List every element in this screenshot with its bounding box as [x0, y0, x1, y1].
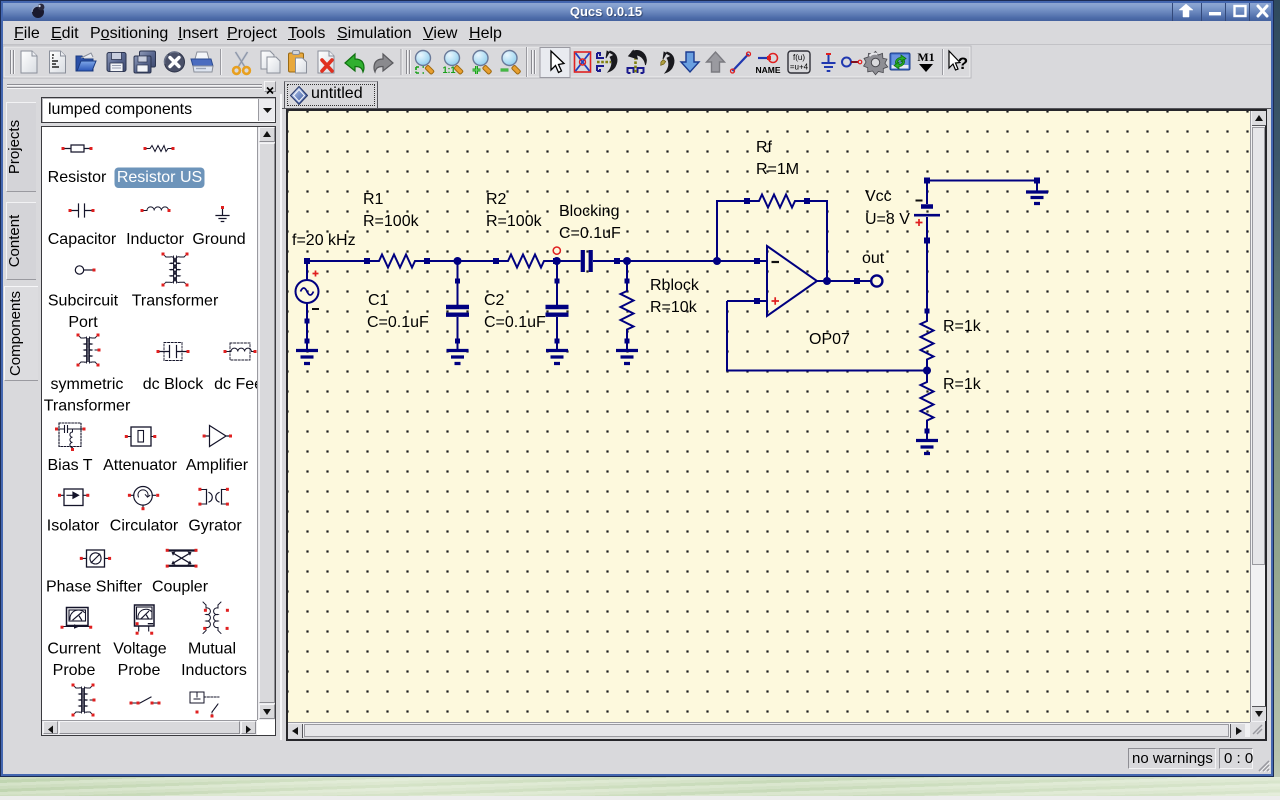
dock titlebar grooves [7, 84, 262, 86]
symmetric transformer icon [81, 338, 88, 362]
capacitor C2 [546, 261, 569, 344]
svg-text:Rf: Rf [756, 139, 773, 156]
vertical tab: Projects [6, 102, 36, 192]
coupler icon [169, 551, 195, 566]
svg-text:Resistor: Resistor [48, 169, 107, 186]
svg-text:Probe: Probe [118, 662, 161, 679]
wire R1 to node A [427, 260, 496, 262]
svg-text:Mutual: Mutual [188, 641, 236, 658]
svg-text:1:1: 1:1 [442, 65, 455, 75]
untitled tab [284, 81, 378, 108]
canvas zone [282, 80, 1271, 742]
pop out (disabled) [707, 52, 725, 72]
cut [233, 52, 250, 74]
amplifier icon [205, 426, 231, 447]
go into [681, 52, 699, 72]
svg-text:Inductors: Inductors [181, 662, 247, 679]
node junction at feedback tap [713, 257, 721, 265]
menu bar [1, 21, 1273, 45]
svg-text:=u+4: =u+4 [790, 63, 809, 72]
wire feedback loop [717, 201, 827, 281]
print [191, 52, 213, 72]
subcircuit port icon [75, 266, 83, 274]
row9: relay icon [190, 692, 204, 703]
insert label [755, 54, 780, 76]
equation [788, 51, 810, 73]
dc feed icon [225, 348, 255, 351]
inductor icon [142, 207, 169, 211]
svg-text:dc Feed: dc Feed [214, 376, 257, 393]
svg-text:Inductor: Inductor [126, 231, 184, 248]
vertical tab: Content [6, 202, 36, 280]
svg-text:Capacitor: Capacitor [48, 231, 117, 248]
beige schematic viewport [288, 111, 1250, 722]
ground for V1 [296, 339, 318, 364]
ground at divider bottom [916, 431, 938, 454]
desktop wallpaper right sliver [1274, 0, 1280, 800]
wire V1 to R1 [307, 260, 367, 262]
window buttons [1172, 1, 1201, 21]
new text [50, 51, 66, 73]
svg-text:Transformer: Transformer [132, 293, 219, 310]
node junction at C2 with red marker [553, 257, 561, 265]
delete [318, 51, 334, 73]
port out [871, 275, 882, 286]
red terminal dots [55, 147, 257, 718]
svg-text:Probe: Probe [53, 662, 96, 679]
open [76, 53, 96, 71]
svg-text:Blocking: Blocking [559, 203, 619, 220]
ground icon [216, 209, 229, 222]
paste [289, 51, 307, 74]
svg-text:C=0.1uF: C=0.1uF [484, 314, 546, 331]
circulator icon [134, 487, 153, 506]
deactivate [575, 52, 591, 72]
svg-text:C=0.1uF: C=0.1uF [559, 225, 621, 242]
resistor R2 [493, 255, 559, 268]
svg-text:Phase Shifter: Phase Shifter [46, 579, 143, 596]
resistor R1 [364, 255, 430, 268]
svg-text:R=10k: R=10k [650, 299, 698, 316]
wire op-amp plus input to divider tap [727, 301, 927, 371]
simulate gear [864, 51, 888, 74]
svg-text:?: ? [958, 54, 968, 73]
desktop wallpaper bottom strip [0, 777, 1280, 796]
phase shifter icon [87, 550, 105, 567]
ground for C2 [556, 341, 558, 349]
svg-text:Transformer: Transformer [44, 398, 131, 415]
svg-text:Attenuator: Attenuator [103, 457, 178, 474]
svg-text:f(u): f(u) [793, 53, 805, 62]
svg-text:R=1k: R=1k [943, 318, 982, 335]
battery Vcc [914, 178, 940, 312]
ground for C1 [457, 341, 459, 349]
current probe icon [67, 608, 89, 626]
dock close button [264, 81, 276, 92]
insert wire [731, 52, 751, 73]
app icon [29, 2, 47, 20]
svg-text:Gyrator: Gyrator [188, 518, 242, 535]
row9: switch icon [131, 697, 159, 703]
svg-text:Vcc: Vcc [865, 188, 892, 205]
save [107, 53, 126, 72]
labels [44, 169, 272, 679]
resistor US icon [145, 146, 173, 152]
svg-text:symmetric: symmetric [51, 376, 124, 393]
new [21, 51, 37, 73]
wire op-amp output to port [817, 280, 871, 282]
svg-text:Rblock: Rblock [650, 277, 700, 294]
voltage probe icon [135, 605, 155, 626]
vertical tab: Components (selected) [4, 286, 38, 381]
pointer (pressed) [540, 48, 570, 78]
horizontal scrollbar [288, 722, 1250, 737]
resistor EU icon [63, 145, 91, 152]
svg-text:dc Block: dc Block [143, 376, 204, 393]
isolator icon [64, 489, 83, 506]
capacitor icon [70, 204, 93, 217]
zoom out [501, 51, 521, 75]
sep + handle [400, 49, 402, 75]
svg-text:Amplifier: Amplifier [186, 457, 249, 474]
svg-text:U=8 V: U=8 V [865, 211, 910, 228]
svg-text:R=100k: R=100k [486, 213, 543, 230]
show data display [890, 53, 910, 70]
svg-text:Bias T: Bias T [47, 457, 92, 474]
svg-text:Subcircuit: Subcircuit [48, 293, 119, 310]
svg-text:R1: R1 [363, 191, 384, 208]
zoom in [473, 51, 492, 75]
resistor Rf [744, 195, 810, 208]
svg-text:Circulator: Circulator [110, 518, 179, 535]
zoom 1:1 [442, 51, 463, 76]
svg-text:C1: C1 [368, 292, 389, 309]
svg-text:R=100k: R=100k [363, 213, 420, 230]
svg-text:OP07: OP07 [809, 331, 850, 348]
svg-text:Coupler: Coupler [152, 579, 209, 596]
zoom fit [416, 51, 435, 75]
ground at Vcc top [1026, 178, 1048, 204]
svg-text:Current: Current [47, 641, 101, 658]
resistor R4 R=1k bottom [921, 371, 934, 434]
bias T icon [59, 423, 81, 447]
svg-text:C2: C2 [484, 292, 505, 309]
svg-text:NAME: NAME [755, 65, 780, 75]
svg-text:Ground: Ground [192, 231, 245, 248]
combo box [41, 97, 276, 123]
toolbar frame lines [3, 46, 971, 78]
marker [917, 50, 934, 72]
component list [41, 126, 276, 736]
copy [261, 51, 280, 73]
svg-text:out: out [862, 250, 885, 267]
wire blocking cap to op-amp minus input [617, 260, 757, 262]
capacitor Blocking [557, 250, 620, 272]
gyrator icon [202, 490, 227, 505]
close [161, 48, 188, 75]
mutual inductors icon [206, 605, 210, 631]
ground tool [822, 54, 836, 71]
svg-text:C=0.1uF: C=0.1uF [367, 314, 429, 331]
mirror [597, 51, 617, 72]
svg-text:Voltage: Voltage [113, 641, 166, 658]
horizontal scrollbar [42, 720, 257, 735]
selection highlight for Resistor US [115, 168, 205, 189]
resistor R3 R=1k top [921, 309, 934, 372]
attenuator icon [131, 427, 151, 446]
svg-text:R=1M: R=1M [756, 161, 799, 178]
svg-text:M1: M1 [917, 50, 934, 64]
save all [134, 51, 156, 73]
svg-text:Port: Port [68, 314, 98, 331]
wire Vcc top to ground [927, 180, 1037, 182]
canvas frame [286, 109, 1267, 741]
corner [1250, 722, 1265, 737]
redo [374, 54, 393, 72]
vertical scrollbar [257, 127, 275, 720]
dc block icon [158, 346, 188, 358]
node junction at Rblock [623, 257, 631, 265]
resistor Rblock [621, 261, 634, 344]
svg-text:R2: R2 [486, 191, 507, 208]
transformer icon [166, 257, 175, 283]
toolbar [1, 45, 1273, 80]
ac source V1 [296, 258, 320, 341]
help pointer [949, 51, 968, 73]
small rotate [660, 52, 674, 73]
undo [345, 54, 364, 72]
sep [220, 49, 222, 75]
node junction at C1 [454, 257, 462, 265]
list content icons and labels [42, 127, 257, 720]
svg-text:R=1k: R=1k [943, 376, 982, 393]
svg-text:Isolator: Isolator [47, 518, 100, 535]
vertical scrollbar [1250, 111, 1265, 722]
svg-text:Resistor US: Resistor US [117, 169, 202, 186]
port tool [842, 58, 862, 67]
pane top edge [282, 108, 1271, 109]
row9: 3-winding transformer icon [76, 688, 83, 712]
ground for Rblock [626, 341, 628, 349]
handle 1 [11, 50, 14, 74]
rotate [628, 50, 647, 73]
left dock [3, 80, 282, 775]
status bar [3, 742, 1271, 775]
capacitor C1 [446, 261, 469, 344]
node junction divider tap [923, 367, 931, 375]
svg-text:f=20 kHz: f=20 kHz [292, 232, 356, 249]
title bar [1, 1, 1273, 21]
node junction at op-amp output [823, 277, 831, 285]
op-amp U1 OP07 [754, 246, 817, 316]
